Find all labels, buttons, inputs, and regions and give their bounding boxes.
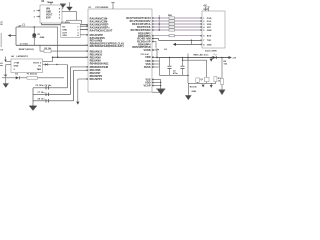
cap bus vertical to ground <box>32 88 35 106</box>
junction pullup rail to 5V rail <box>57 56 59 58</box>
microcontroller U1 body <box>88 9 152 92</box>
svg-text:RA2/AN2/VREF-: RA2/AN2/VREF- <box>90 23 110 26</box>
svg-text:RE0 (AN5): RE0 (AN5) <box>90 40 103 43</box>
svg-text:ICSP: ICSP <box>203 9 209 11</box>
U1 VDD pin stub <box>152 56 160 58</box>
J2 pin pad y24.0 <box>200 23 202 25</box>
junction dot pullup <box>33 26 35 28</box>
svg-text:VIN: VIN <box>46 8 50 10</box>
resistor R2 body <box>44 50 51 53</box>
wire diode to fuse <box>20 77 27 79</box>
wire row2 pin link to U1 <box>71 66 88 68</box>
regulator U4 body <box>11 59 43 73</box>
U1 ground pin stubs bottom right <box>152 78 161 80</box>
terminal +5V right <box>227 56 230 58</box>
U4 output wire <box>43 60 53 62</box>
R3 stub <box>214 82 216 84</box>
capacitor C2 hang wire <box>168 58 170 66</box>
wire row3 pin link to U1 <box>74 69 88 71</box>
junction on D- run <box>191 40 193 42</box>
ground GND4 caps bus <box>29 105 37 108</box>
U4 second output wire <box>43 63 68 65</box>
resistor R3 vertical <box>214 77 217 82</box>
ground GND2 <box>67 6 73 9</box>
svg-text:VOUT 3: VOUT 3 <box>33 62 42 64</box>
wire MCLR horizontal <box>16 44 88 47</box>
left edge bars <box>0 62 3 65</box>
svg-text:VDD: VDD <box>145 56 151 59</box>
junction VUSB on rail <box>156 57 158 59</box>
small ground under Q1 <box>202 85 205 88</box>
power bus vertical <box>158 58 160 76</box>
U1 left pin pads <box>86 44 88 46</box>
LED emission arrows <box>214 54 215 56</box>
svg-text:RB5/KBI1/PGM: RB5/KBI1/PGM <box>90 66 108 69</box>
svg-text:VDD: VDD <box>145 81 151 84</box>
resistor RN1 element y30.0 <box>169 29 175 31</box>
Y2 stub <box>205 82 207 84</box>
wire output up to +5V rail <box>51 57 53 61</box>
wire +5V rail corner vertical <box>15 27 17 45</box>
svg-text:VCAP: VCAP <box>143 84 150 87</box>
wire VBUS to J2 <box>176 43 202 46</box>
svg-text:RED LED 3mm: RED LED 3mm <box>194 54 209 56</box>
J2 pin pad y30.0 <box>200 29 202 31</box>
wire cap row 2 <box>33 93 71 96</box>
ground GND1 near U3 right pin <box>60 3 66 6</box>
svg-text:C8 10u: C8 10u <box>38 99 46 101</box>
svg-text:RC7/RX/DT/SDO: RC7/RX/DT/SDO <box>131 29 151 32</box>
wire OSC top link <box>66 19 82 21</box>
wire +5V rail to U1 <box>53 56 88 59</box>
wire drop from USB run <box>187 57 189 59</box>
svg-text:RB2/AN8: RB2/AN8 <box>90 56 102 59</box>
svg-text:GND: GND <box>14 66 19 68</box>
wire cap row 1 <box>33 87 67 90</box>
U4 gnd pin elbow <box>6 63 11 65</box>
U3 right pin stub to ground <box>62 7 63 9</box>
X1 pin stub lower <box>80 34 88 36</box>
svg-text:GND: GND <box>62 29 67 31</box>
svg-text:RB4/KBI0/AN11: RB4/KBI0/AN11 <box>90 62 110 65</box>
wire +5V rail horizontal <box>16 26 58 28</box>
capacitor C3 plates <box>181 65 185 68</box>
wire pullup rail drop <box>57 27 59 57</box>
svg-text:RC2/CCP1/P1A: RC2/CCP1/P1A <box>132 23 151 26</box>
svg-text:RC0/T1OSO/T13CKI: RC0/T1OSO/T13CKI <box>126 17 151 20</box>
svg-text:VSS: VSS <box>145 78 150 81</box>
svg-text:C1 100n: C1 100n <box>20 44 29 46</box>
wire D- run to J2 <box>159 39 203 42</box>
svg-text:RA5/AN4/SS: RA5/AN4/SS <box>90 37 106 40</box>
svg-text:C7 10u: C7 10u <box>38 92 46 94</box>
vertical from 5V line to row 1 <box>66 65 69 88</box>
svg-text:C5 100n C6 10u: C5 100n C6 10u <box>36 85 53 87</box>
U3 bottom pin stub to OSC wire <box>40 23 42 25</box>
svg-text:RD0/SPP0: RD0/SPP0 <box>90 75 103 78</box>
wire drop from rail at LED junction <box>221 57 223 59</box>
svg-text:VSS: VSS <box>145 63 150 66</box>
left edge wire stub <box>0 33 2 47</box>
wire driver drop <box>205 60 207 77</box>
LED D2 <box>213 56 216 59</box>
down arrow mark under rail <box>210 57 212 59</box>
diode D1 <box>32 33 36 37</box>
svg-text:RC4/D-/VM: RC4/D-/VM <box>137 37 150 40</box>
wire oscillator feed <box>80 20 82 23</box>
U3 pin 1 stub left <box>37 9 41 11</box>
connector P1 body <box>196 78 200 82</box>
svg-text:VOUT: VOUT <box>46 14 53 16</box>
svg-text:VDD: VDD <box>145 60 151 63</box>
vertical elbow row 3 <box>72 70 75 101</box>
svg-text:RA1/AN1/C2IN-: RA1/AN1/C2IN- <box>90 20 109 23</box>
svg-text:VDD: VDD <box>207 24 212 26</box>
X1 pin stub upper <box>80 25 88 27</box>
ground GND7 arrow <box>185 95 192 100</box>
diode D4 on 5V line <box>45 63 48 65</box>
capacitor C6 <box>45 93 48 96</box>
junction bus on traces <box>158 15 160 30</box>
svg-text:RA4/T0CKI/C1OUT: RA4/T0CKI/C1OUT <box>90 29 113 32</box>
terminal arrow VBUS <box>173 43 176 46</box>
small ground arrow under drop <box>76 102 79 105</box>
wire trace y18.0 <box>152 17 202 20</box>
voltage regulator U3 (78L05) body <box>40 5 62 23</box>
capacitor C7 <box>45 99 48 102</box>
svg-text:TXD: TXD <box>207 40 212 42</box>
svg-text:RD5/SPP5/P1B: RD5/SPP5/P1B <box>132 46 150 49</box>
small ground under Y2 <box>210 83 212 85</box>
svg-text:1 VIN: 1 VIN <box>14 62 20 64</box>
svg-text:C10 1uF: C10 1uF <box>141 54 150 56</box>
resistor RN1 element y24.0 <box>169 23 175 25</box>
svg-text:BYP: BYP <box>46 17 51 19</box>
svg-text:RB1/AN10: RB1/AN10 <box>90 53 103 56</box>
wire VUSB elbow <box>152 49 157 51</box>
P1 stub <box>196 82 198 83</box>
svg-text:GND: GND <box>207 44 212 46</box>
U1 top supply stub <box>112 3 114 10</box>
svg-text:+5V: +5V <box>18 25 22 27</box>
J2 top stubs <box>204 7 206 11</box>
svg-text:12V: 12V <box>4 75 8 77</box>
svg-text:+5V: +5V <box>203 5 207 7</box>
ground GND3 under U4 <box>3 82 9 85</box>
J2 pin pad y21.0 <box>200 20 202 22</box>
polarity mark box <box>23 24 25 26</box>
wire from top edge to ground GND2 <box>68 2 70 7</box>
svg-text:RC6/TX/CK: RC6/TX/CK <box>137 26 151 29</box>
wire R5 to ground <box>221 85 223 90</box>
wire R2 left <box>40 50 44 52</box>
svg-text:RB6/KBI2/PGC/(PROG.CLK): RB6/KBI2/PGC/(PROG.CLK) <box>90 42 124 45</box>
junction +5V node <box>52 56 54 58</box>
wire OSC1 to U1 <box>42 23 89 26</box>
vertical elbow row 2 <box>69 67 72 94</box>
resistor RN1 element y21.0 <box>169 20 175 22</box>
svg-text:RD1/SPP1: RD1/SPP1 <box>90 78 103 81</box>
ground GND6 <box>219 89 225 92</box>
svg-text:RC1/T1OSI/CCP2: RC1/T1OSI/CCP2 <box>130 20 152 23</box>
input terminal arrow MCLR <box>11 34 17 36</box>
wire 12V input <box>2 77 16 79</box>
svg-text:AVSS: AVSS <box>144 66 151 69</box>
svg-text:GND: GND <box>46 11 51 13</box>
input arrow terminal <box>4 57 6 62</box>
svg-text:VDD: VDD <box>62 35 67 37</box>
svg-text:RC5/D+/VP: RC5/D+/VP <box>137 40 151 43</box>
J2 pin pad y18.0 <box>200 17 202 19</box>
svg-text:GND: GND <box>207 30 212 32</box>
wire D- stub <box>152 37 159 39</box>
svg-text:RESET (MCLR): RESET (MCLR) <box>19 49 34 51</box>
svg-text:PGC: PGC <box>207 21 212 23</box>
wire trace y21.0 <box>152 20 202 23</box>
wire bottom bus <box>188 82 216 84</box>
junction on 5V line <box>56 64 57 65</box>
svg-text:VPP: VPP <box>207 27 212 29</box>
connector J2 body <box>202 11 225 48</box>
svg-text:PGD: PGD <box>207 18 212 20</box>
vertical tie of ground pins <box>159 80 161 89</box>
svg-text:RB3/AN9: RB3/AN9 <box>90 59 102 62</box>
trace row 6 <box>152 34 202 37</box>
svg-text:VUSB: VUSB <box>143 49 150 52</box>
wire +5V rail to LED <box>160 56 229 59</box>
svg-text:MCLR/VPP: MCLR/VPP <box>90 34 104 37</box>
wire cap row 3 <box>33 100 74 103</box>
diode D3 <box>16 76 19 79</box>
J2 pin pad y27.0 <box>200 26 202 28</box>
resistor RN1 element row 6 <box>169 35 175 37</box>
wire D+ stub <box>152 40 156 42</box>
wire branch to driver <box>182 60 183 61</box>
wire drop to osc link <box>75 12 77 21</box>
svg-text:ICD2 CONN: ICD2 CONN <box>205 50 217 52</box>
capacitor C2 plates <box>168 65 172 68</box>
svg-text:RE2/AN7: RE2/AN7 <box>90 72 101 75</box>
U1 power pin stubs <box>152 60 160 62</box>
U3 right pin wire to oscillator <box>62 10 77 12</box>
crystal Y2 body <box>205 77 210 81</box>
oscillator X1 body <box>61 24 80 38</box>
svg-text:+5V: +5V <box>232 57 236 59</box>
wire drop to R2 row <box>39 45 41 51</box>
U4 input pin wire <box>6 60 12 62</box>
J2 pads rows 7-8 <box>200 40 202 42</box>
svg-text:RE1/AN6: RE1/AN6 <box>90 69 101 72</box>
U1 right pin pads <box>152 17 154 19</box>
fuse F1 body <box>27 76 38 79</box>
wire OSC2 to U1 <box>80 28 88 31</box>
svg-text:R2 10k: R2 10k <box>44 48 52 50</box>
cap tie wire <box>160 74 189 76</box>
wire R2 to U1 <box>51 50 88 52</box>
resistor RN1 element y27.0 <box>169 26 175 28</box>
ground GND5 <box>156 88 165 91</box>
wire gnd drop left <box>187 83 189 95</box>
svg-text:RB7/KBI3/PGD/(PROG.DAT): RB7/KBI3/PGD/(PROG.DAT) <box>90 45 124 48</box>
svg-text:LM7805/TO: LM7805/TO <box>17 56 29 58</box>
svg-text:OUT: OUT <box>62 32 67 34</box>
capacitor C5 <box>45 86 48 89</box>
diode D1 vertical wire <box>33 27 35 45</box>
svg-text:RB0/AN12: RB0/AN12 <box>90 50 103 53</box>
svg-text:GND: GND <box>192 91 197 93</box>
wire trace y30.0 <box>152 29 202 32</box>
wire box bottom to ground <box>152 91 160 93</box>
U3 top supply stub <box>50 3 52 6</box>
resistor RN1 element y18.0 <box>169 17 175 19</box>
svg-text:NC: NC <box>62 27 66 29</box>
svg-text:RA0/AN0/C1IN-: RA0/AN0/C1IN- <box>90 17 109 20</box>
wire trace y24.0 <box>152 23 202 26</box>
resistor R5 vertical <box>221 79 224 85</box>
capacitor C3 hang wire <box>181 58 183 66</box>
wire RB pin drop <box>77 79 79 102</box>
wire fuse onward <box>38 77 65 79</box>
svg-text:RA3/AN3/VREF+: RA3/AN3/VREF+ <box>90 26 111 29</box>
wire trace y27.0 <box>152 26 202 29</box>
U3 pin 2 stub left <box>37 15 41 17</box>
